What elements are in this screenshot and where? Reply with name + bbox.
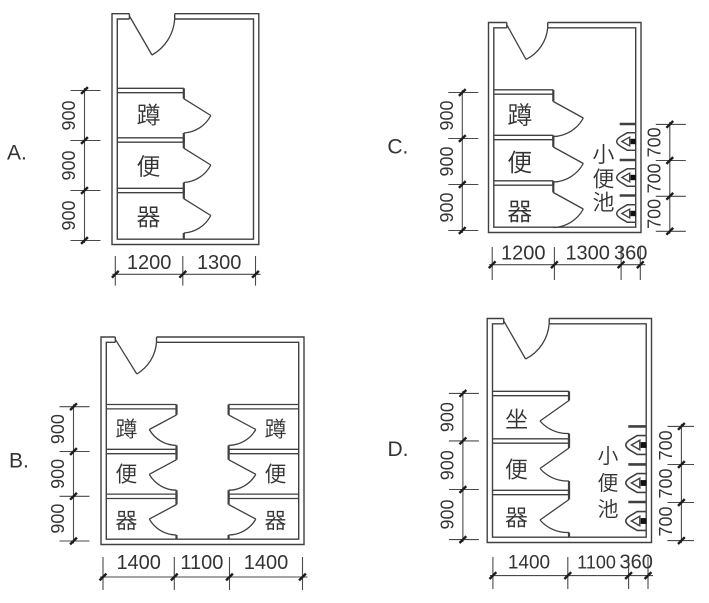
svg-text:900: 900 xyxy=(48,504,68,534)
A stall 2 label {bian} xyxy=(137,155,159,177)
B-right stall 1 door jamb bottom xyxy=(228,445,230,453)
C right 700 extension line at y=160 xyxy=(656,160,686,162)
B-right stall 3 door jamb top xyxy=(228,494,230,504)
B-left stall 1 label {zun} xyxy=(116,418,136,438)
svg-text:1400: 1400 xyxy=(244,552,289,574)
B-left stall 2 door leaf xyxy=(149,460,176,475)
B-left stall 2 label {bian} xyxy=(116,463,136,483)
C #1 urinal fixture xyxy=(617,133,636,150)
B-left stall 3 label {qi} xyxy=(116,511,137,530)
svg-text:900: 900 xyxy=(48,414,68,444)
B-left stall 3 door leaf xyxy=(149,505,176,520)
C stall 1 door swing arc xyxy=(553,118,583,137)
A left 900 tick mark xyxy=(81,137,88,144)
B-right stall 1 door leaf xyxy=(229,415,256,430)
D bottom tick mark xyxy=(625,572,632,579)
B left 900 tick mark xyxy=(70,448,77,455)
B left 900 extension line at y=496 xyxy=(60,495,90,497)
room B inner wall xyxy=(106,342,298,539)
A bottom extension line at x=183 xyxy=(182,256,184,286)
svg-text:1400: 1400 xyxy=(508,553,550,574)
room D entry door swing arc xyxy=(526,324,550,359)
D stall 1 label {zuo} xyxy=(506,409,527,429)
svg-text:900: 900 xyxy=(437,146,457,176)
A left 900 extension line at y=240 xyxy=(71,240,101,242)
B bottom extension line at x=302 xyxy=(302,557,304,590)
room B door jambs xyxy=(114,337,116,342)
A stall 1 door jamb top xyxy=(183,88,185,98)
A stall 2 door jamb top xyxy=(183,138,185,148)
B-right stall 1 label {zun} xyxy=(265,418,285,438)
A left 900 extension line at y=190 xyxy=(71,190,101,192)
C right 700 extension line at y=196 xyxy=(656,195,686,197)
D label 小 xyxy=(598,446,618,465)
D bottom extension line at x=568 xyxy=(567,557,569,589)
D bottom extension line at x=629 xyxy=(628,557,630,589)
C urinal privacy screen xyxy=(620,123,636,126)
B-left stall partition 2 (double line) xyxy=(106,448,176,450)
A stall 2 door leaf xyxy=(184,148,211,165)
B bottom tick mark xyxy=(226,574,233,581)
A stall 1 door swing arc xyxy=(184,116,211,134)
A bottom tick mark xyxy=(179,271,186,278)
D stall 2 door jamb bottom xyxy=(568,481,570,495)
B-left stall 3 door jamb bottom xyxy=(175,535,177,539)
room A entry door swing arc xyxy=(152,19,175,55)
D stall 3 door leaf xyxy=(540,500,569,521)
svg-text:900: 900 xyxy=(437,100,457,130)
svg-text:700: 700 xyxy=(644,199,664,229)
D left 900 tick mark xyxy=(460,390,467,397)
C stall 1 door jamb top xyxy=(552,90,554,102)
svg-text:900: 900 xyxy=(437,450,457,480)
D right 700 extension line at y=464 xyxy=(667,464,694,466)
C label 池 xyxy=(593,192,613,212)
room C entry door leaf xyxy=(507,25,526,59)
B-right stall 3 door swing arc xyxy=(229,519,256,535)
C bottom extension line at x=640 xyxy=(639,247,641,280)
C right 700 extension line at y=124 xyxy=(656,123,686,125)
C stall 3 door jamb bottom xyxy=(552,226,554,229)
D stall 2 door jamb top xyxy=(568,439,570,448)
svg-text:900: 900 xyxy=(437,192,457,222)
svg-text:D.: D. xyxy=(388,438,409,461)
B-left stall 1 door swing arc xyxy=(149,430,176,446)
C bottom tick mark xyxy=(618,261,625,268)
A bottom dimension line (horizontal) xyxy=(112,273,260,275)
svg-text:A.: A. xyxy=(7,142,27,165)
svg-text:360: 360 xyxy=(620,552,653,574)
B-right stall partition 2 (double line) xyxy=(229,448,299,450)
D right 700 tick mark xyxy=(678,537,685,544)
D right 700 tick mark xyxy=(678,423,685,430)
D bottom tick mark xyxy=(490,572,497,579)
D left 900 extension line at y=490 xyxy=(449,489,479,491)
D left 900 dimension line (vertical) xyxy=(462,391,464,542)
A stall 1 door jamb bottom xyxy=(183,133,185,142)
D stall partition 1 (double line) xyxy=(493,390,570,392)
room C door jambs xyxy=(506,23,508,28)
svg-text:700: 700 xyxy=(656,468,676,498)
B-left stall partition 3 (double line) xyxy=(106,493,176,495)
D right 700 extension line at y=502 xyxy=(667,502,694,504)
C left 900 extension line at y=92 xyxy=(448,92,478,94)
A stall 3 door swing arc xyxy=(184,216,211,234)
room D inner wall xyxy=(493,324,647,537)
D stall 1 door swing arc xyxy=(540,421,569,434)
B-left stall 1 door jamb bottom xyxy=(175,445,177,453)
D label 池 xyxy=(598,499,617,518)
C bottom extension line at x=554 xyxy=(553,247,555,280)
B-right stall 1 door jamb top xyxy=(228,405,230,415)
svg-text:700: 700 xyxy=(644,163,664,193)
C stall 1 door leaf xyxy=(553,102,583,119)
svg-text:1300: 1300 xyxy=(565,243,610,265)
D stall 1 door jamb top xyxy=(568,391,570,400)
C label 小 xyxy=(593,144,614,164)
room D outer wall xyxy=(487,319,651,543)
C bottom extension line at x=621 xyxy=(620,247,622,280)
C bottom tick mark xyxy=(489,261,496,268)
C stall 3 door jamb top xyxy=(552,181,554,193)
room B outer wall xyxy=(101,337,304,545)
C stall 2 door jamb top xyxy=(552,135,554,147)
D bottom tick mark xyxy=(564,572,571,579)
D right 700 tick mark xyxy=(678,461,685,468)
A stall 3 door jamb bottom xyxy=(183,233,185,239)
D stall 2 door swing arc xyxy=(540,469,569,482)
C #2 urinal fixture xyxy=(617,169,636,186)
svg-text:C.: C. xyxy=(387,136,408,159)
D stall 3 label {qi} xyxy=(506,507,528,527)
B-right stall partition 1 (double line) xyxy=(229,404,299,406)
A stall partition 2 (double line) xyxy=(117,137,184,139)
C left 900 tick mark xyxy=(459,89,466,96)
svg-text:1100: 1100 xyxy=(577,553,616,573)
svg-text:700: 700 xyxy=(656,430,676,460)
D left 900 extension line at y=441 xyxy=(449,440,479,442)
A left 900 tick mark xyxy=(81,87,88,94)
C left 900 tick mark xyxy=(459,181,466,188)
B bottom dimension line (horizontal) xyxy=(100,576,308,578)
room A inner wall xyxy=(117,19,253,239)
A bottom extension line at x=115 xyxy=(114,256,116,286)
B bottom extension line at x=230 xyxy=(229,557,231,590)
B-left stall 1 door leaf xyxy=(149,415,176,430)
C right 700 tick mark xyxy=(666,157,673,164)
A left 900 tick mark xyxy=(81,237,88,244)
D stall 2 label {bian} xyxy=(506,458,527,479)
room C outer wall xyxy=(489,23,642,233)
D bottom extension line at x=493 xyxy=(492,557,494,589)
C left 900 extension line at y=230 xyxy=(448,230,478,232)
D left 900 extension line at y=393 xyxy=(449,392,479,394)
D right 700 extension line at y=426 xyxy=(667,425,694,427)
A stall partition 1 (double line) xyxy=(117,87,184,89)
B left 900 extension line at y=452 xyxy=(60,451,90,453)
room C inner wall xyxy=(494,28,636,227)
svg-text:1200: 1200 xyxy=(127,252,172,274)
C stall 2 door jamb bottom xyxy=(552,182,554,185)
D left 900 tick mark xyxy=(460,536,467,543)
room C entry door swing arc xyxy=(526,28,548,60)
D stall partition 3 (double line) xyxy=(493,489,570,491)
D urinal privacy screen xyxy=(628,463,646,466)
C stall 1 door jamb bottom xyxy=(552,137,554,140)
A stall 3 door leaf xyxy=(184,199,211,216)
B-left stall 2 door swing arc xyxy=(149,474,176,490)
A stall 2 door swing arc xyxy=(184,165,211,183)
B-left stall partition 1 (double line) xyxy=(106,404,176,406)
B left 900 dimension line (vertical) xyxy=(73,404,75,543)
svg-text:900: 900 xyxy=(437,402,457,432)
C stall 2 door leaf xyxy=(553,147,583,164)
room B entry door leaf xyxy=(116,340,137,374)
C left 900 tick mark xyxy=(459,135,466,142)
B left 900 extension line at y=407 xyxy=(60,406,90,408)
C bottom tick mark xyxy=(637,261,644,268)
svg-text:900: 900 xyxy=(59,200,79,230)
C bottom dimension line (horizontal) xyxy=(489,264,645,266)
svg-text:1300: 1300 xyxy=(197,252,242,274)
D #1 urinal fixture xyxy=(626,436,647,455)
svg-text:1100: 1100 xyxy=(180,552,223,574)
B-right stall 2 door jamb top xyxy=(228,449,230,459)
B bottom extension line at x=174 xyxy=(173,557,175,590)
D right 700 dimension line (vertical) xyxy=(680,424,682,543)
B-left stall 3 door jamb top xyxy=(175,494,177,504)
svg-text:900: 900 xyxy=(59,150,79,180)
C stall 1 label {zun} xyxy=(508,103,531,126)
B-right stall 2 door leaf xyxy=(229,460,256,475)
B-right stall 2 door swing arc xyxy=(229,474,256,490)
B bottom tick mark xyxy=(171,574,178,581)
svg-text:700: 700 xyxy=(644,127,664,157)
C label 便 xyxy=(593,168,613,188)
A stall partition 3 (double line) xyxy=(117,187,184,189)
B-left stall 2 door jamb top xyxy=(175,449,177,459)
C urinal privacy screen xyxy=(620,159,636,162)
C right 700 tick mark xyxy=(666,121,673,128)
svg-text:700: 700 xyxy=(656,506,676,536)
B-left stall 1 door jamb top xyxy=(175,405,177,415)
C stall partition 3 (double line) xyxy=(494,180,554,182)
C stall 2 door swing arc xyxy=(553,164,583,183)
C right 700 extension line at y=231 xyxy=(656,230,686,232)
A stall 1 label {zun} xyxy=(137,104,159,126)
C right 700 tick mark xyxy=(666,193,673,200)
B-right stall 3 label {qi} xyxy=(265,511,286,530)
C stall 3 door swing arc xyxy=(553,209,583,228)
B bottom extension line at x=103 xyxy=(102,557,104,590)
D stall 1 door leaf xyxy=(540,401,569,422)
C right 700 dimension line (vertical) xyxy=(669,122,671,234)
C stall 2 label {bian} xyxy=(508,151,531,174)
C stall partition 2 (double line) xyxy=(494,134,554,136)
room A outer wall xyxy=(112,14,259,245)
room D entry door leaf xyxy=(504,321,526,359)
C urinal privacy screen xyxy=(620,194,636,197)
C left 900 extension line at y=184 xyxy=(448,184,478,186)
C bottom tick mark xyxy=(551,261,558,268)
B-left stall 2 door jamb bottom xyxy=(175,490,177,498)
C #3 urinal fixture xyxy=(617,205,636,222)
svg-text:900: 900 xyxy=(48,459,68,489)
D stall 2 door leaf xyxy=(540,448,569,469)
D stall 3 door jamb bottom xyxy=(568,533,570,538)
room A entry door leaf xyxy=(130,17,152,56)
C left 900 dimension line (vertical) xyxy=(461,90,463,233)
B left 900 tick mark xyxy=(70,403,77,410)
D urinal privacy screen xyxy=(628,425,646,428)
A left 900 dimension line (vertical) xyxy=(84,88,86,243)
A left 900 extension line at y=90 xyxy=(71,90,101,92)
A stall 2 door jamb bottom xyxy=(183,183,185,193)
C stall partition 1 (double line) xyxy=(494,89,554,91)
D right 700 extension line at y=541 xyxy=(667,540,694,542)
D left 900 tick mark xyxy=(460,438,467,445)
A bottom tick mark xyxy=(112,271,119,278)
D left 900 tick mark xyxy=(460,486,467,493)
B-left stall 3 door swing arc xyxy=(149,519,176,535)
B bottom tick mark xyxy=(100,574,107,581)
D stall 1 door jamb bottom xyxy=(568,434,570,444)
A stall 1 door leaf xyxy=(184,99,211,116)
D bottom extension line at x=648 xyxy=(647,557,649,589)
svg-text:1400: 1400 xyxy=(116,552,161,574)
B-right stall 2 label {bian} xyxy=(265,463,285,483)
D stall 3 door jamb top xyxy=(568,490,570,499)
D urinal privacy screen xyxy=(628,501,646,504)
B left 900 tick mark xyxy=(70,493,77,500)
A stall 3 label {qi} xyxy=(137,207,159,228)
C left 900 extension line at y=138 xyxy=(448,138,478,140)
svg-text:B.: B. xyxy=(9,450,29,473)
A left 900 extension line at y=140 xyxy=(71,140,101,142)
D label 便 xyxy=(598,473,618,492)
svg-text:900: 900 xyxy=(437,499,457,529)
C stall 3 label {qi} xyxy=(508,201,531,223)
B left 900 tick mark xyxy=(70,538,77,545)
B-right stall partition 3 (double line) xyxy=(229,493,299,495)
C left 900 tick mark xyxy=(459,227,466,234)
B-right stall 3 door leaf xyxy=(229,505,256,520)
svg-text:360: 360 xyxy=(614,243,647,265)
C stall 3 door leaf xyxy=(553,193,583,210)
D #3 urinal fixture xyxy=(626,512,647,531)
A bottom extension line at x=256 xyxy=(255,256,257,286)
A left 900 tick mark xyxy=(81,187,88,194)
C right 700 tick mark xyxy=(666,228,673,235)
D right 700 tick mark xyxy=(678,499,685,506)
C bottom extension line at x=492 xyxy=(491,247,493,280)
D stall 3 door swing arc xyxy=(540,520,569,533)
B-right stall 3 door jamb bottom xyxy=(228,535,230,539)
A stall 3 door jamb top xyxy=(183,188,185,198)
room A door jambs xyxy=(128,14,130,19)
D stall partition 2 (double line) xyxy=(493,438,570,440)
B-right stall 2 door jamb bottom xyxy=(228,490,230,498)
D bottom dimension line (horizontal) xyxy=(490,575,653,577)
svg-text:1200: 1200 xyxy=(501,243,546,265)
svg-text:900: 900 xyxy=(59,100,79,130)
room D door jambs xyxy=(503,319,505,324)
A bottom tick mark xyxy=(252,271,259,278)
D bottom tick mark xyxy=(645,572,652,579)
B-right stall 1 door swing arc xyxy=(229,430,256,446)
D #2 urinal fixture xyxy=(626,474,647,493)
B bottom tick mark xyxy=(299,574,306,581)
D left 900 extension line at y=540 xyxy=(449,539,479,541)
room B entry door swing arc xyxy=(137,342,157,374)
B left 900 extension line at y=541 xyxy=(60,540,90,542)
